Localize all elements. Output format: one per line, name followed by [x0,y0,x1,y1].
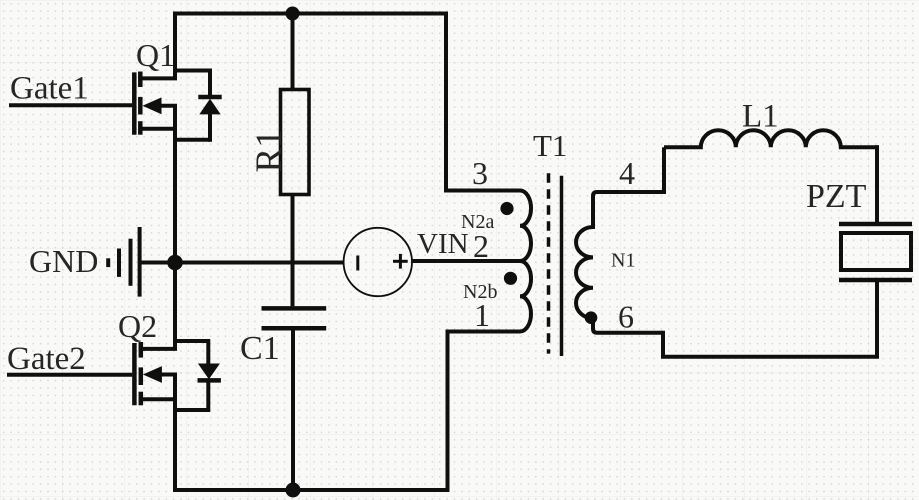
svg-text:Gate2: Gate2 [7,341,86,377]
svg-text:Q2: Q2 [118,308,157,344]
wire: Q1 drain connection [138,76,177,80]
transistor Q2 channel segments [139,342,144,405]
svg-text:R1: R1 [249,129,290,172]
svg-text:Gate1: Gate1 [10,71,89,107]
wire: VIN plus to transformer center tap pin 2 [412,259,521,263]
node: phase dot N2b [504,272,517,285]
wire: bottom rail [173,488,450,492]
wire: left rail upper segment (top rail down to Q1 drain) [173,12,177,79]
transistor Q1 body arrow [143,97,162,114]
wire: Q1 source connection [138,127,177,131]
ground GND symbol [108,227,139,297]
wire: Gate1 lead to Q1 gate [9,103,132,107]
wire: pin-3 riser (top rail down to transformer pin 3) [444,12,448,191]
svg-text:4: 4 [619,155,635,191]
svg-text:L1: L1 [742,99,779,135]
wire: R1 top lead [291,14,295,92]
wire: PZT bottom lead, bottom-right return wire and pin-6 riser [663,282,877,357]
wire: top rail from left rail to pin-3 riser [173,12,448,16]
svg-text:PZT: PZT [806,178,867,215]
svg-text:3: 3 [472,155,488,191]
svg-text:N2a: N2a [461,211,494,233]
transistor Q2 gate bar [132,343,137,405]
svg-text:T1: T1 [533,128,567,163]
piezo element PZT (crystal symbol) [839,224,912,280]
resistor R1 body [281,90,310,195]
wire: GND node to VIN source [175,261,344,265]
svg-text:N1: N1 [611,250,635,272]
node: phase dot N2a [500,202,513,215]
wire: Gate2 lead to Q2 gate [7,373,132,377]
wire: Q2 body to source rail [161,373,177,377]
transistor Q1 gate bar [132,72,137,134]
wire: left rail through Q2 body/source down to bottom rail [173,375,177,493]
svg-text:N2b: N2b [463,281,497,303]
node: GND junction dot on left rail [167,255,183,271]
svg-text:6: 6 [618,299,634,335]
transistor Q2 body arrow [143,366,162,383]
transformer T1 primary winding N2 with pin 3 and pin 1 leads [444,191,531,332]
wire: R1 bottom lead to C1 top plate [291,195,295,307]
transformer T1 core dashed line [547,173,551,353]
source VIN circle [344,228,412,296]
source VIN plus sign [393,254,408,269]
svg-text:C1: C1 [240,330,280,367]
inductor L1 [664,130,879,147]
transformer T1 secondary winding N1 with pin 4 and pin 6 leads [576,192,664,333]
wire: Q2 source connection [139,397,177,401]
diode D2: Q2 body diode [173,339,221,412]
svg-text:2: 2 [473,228,489,264]
wire: GND to left rail [140,261,175,265]
node: junction dot at top rail / R1 branch [286,7,300,21]
source VIN minus tick [356,256,359,271]
wire: Q2 drain connection [139,347,177,351]
capacitor C1 bottom plate [262,326,327,331]
transistor Q1 channel segments [138,72,143,135]
svg-text:GND: GND [29,243,98,279]
svg-text:Q1: Q1 [136,37,175,73]
wire: Q1 body to source rail [161,104,178,108]
wire: pin-1 riser down to bottom rail [446,330,450,493]
wire: C1 bottom lead to bottom rail [291,330,295,490]
transformer T1 core solid line [560,176,564,356]
node: phase dot N1 pin 6 [585,311,598,324]
wire: pin-4 riser up to L1 [662,147,666,194]
diode D1: Q1 body diode [173,69,222,142]
capacitor C1 top plate [262,306,327,311]
node: junction dot at bottom rail / C1 branch [286,483,301,498]
wire: left rail through Q1 body/source down to GND node and Q2 drain [173,106,177,350]
wire: right rail from L1 down to PZT top [875,145,879,222]
